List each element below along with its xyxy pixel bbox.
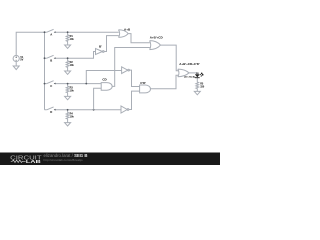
svg-text:B': B' bbox=[99, 44, 102, 48]
svg-text:C: C bbox=[50, 84, 52, 88]
svg-text:10k: 10k bbox=[70, 38, 75, 41]
svg-text:330: 330 bbox=[200, 85, 205, 88]
svg-text:C'D': C'D' bbox=[140, 81, 146, 85]
svg-text:B: B bbox=[50, 58, 52, 62]
svg-text:(2V, 20mA): (2V, 20mA) bbox=[184, 75, 195, 78]
svg-text:10k: 10k bbox=[70, 116, 75, 119]
svg-text:A+B'+CD: A+B'+CD bbox=[150, 36, 164, 40]
svg-text:A+B'+CD+C'D': A+B'+CD+C'D' bbox=[179, 62, 200, 66]
svg-text:10k: 10k bbox=[70, 64, 75, 67]
svg-text:5V: 5V bbox=[20, 57, 23, 61]
svg-text:LAB: LAB bbox=[26, 159, 41, 164]
svg-text:10k: 10k bbox=[70, 89, 75, 92]
svg-text:A: A bbox=[50, 32, 52, 36]
svg-text:A+B: A+B bbox=[124, 28, 131, 32]
svg-text:D: D bbox=[50, 110, 52, 114]
svg-text:http://circuitlab.com/c/8vw2qs: http://circuitlab.com/c/8vw2qs bbox=[44, 158, 84, 162]
